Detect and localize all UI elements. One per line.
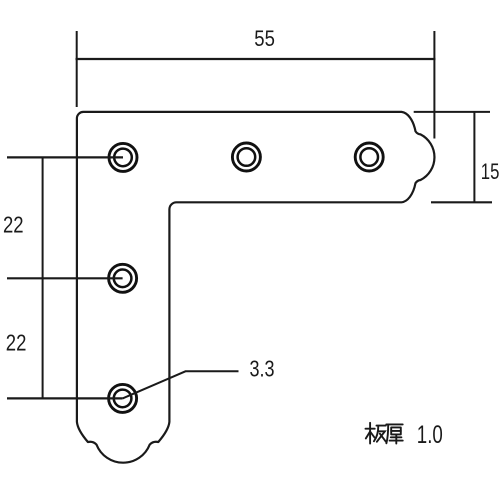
note: plate thickness label 板厚 (drawn as paths) — [366, 423, 403, 444]
dimension 22 (lower): leader through hole H5 — [7, 397, 123, 399]
svg-text:55: 55 — [254, 26, 275, 51]
dimension 15: bottom extension line — [431, 201, 492, 203]
dimension 15: top extension line — [414, 111, 490, 113]
svg-text:22: 22 — [3, 211, 24, 237]
hole H1 (top-left corner hole) — [109, 143, 137, 171]
dimension 15: dimension line — [473, 112, 475, 202]
dimension 22: vertical dimension line — [42, 157, 44, 398]
dimension 55: left extension line — [76, 31, 78, 107]
svg-text:15: 15 — [481, 159, 500, 184]
hole H3 (top right) — [355, 143, 383, 171]
svg-text:3.3: 3.3 — [250, 355, 275, 381]
svg-text:22: 22 — [6, 330, 27, 356]
bracket outline — [77, 112, 435, 463]
dimension 55: dimension line — [76, 58, 436, 60]
dimension 22 (upper): leader through hole H1 — [7, 156, 123, 158]
kanji 板 — [366, 423, 386, 444]
dimension 3.3: leader line from hole H5 — [123, 371, 239, 398]
svg-text:1.0: 1.0 — [417, 421, 443, 449]
hole H5 (bottom hole) — [109, 384, 137, 412]
hole H4 (left column middle) — [109, 264, 137, 292]
kanji 厚 — [386, 424, 402, 443]
dimension 55: right extension line — [433, 31, 435, 139]
dimension 22 (upper): leader through hole H4 — [7, 277, 123, 279]
hole H2 (top middle) — [232, 143, 260, 171]
